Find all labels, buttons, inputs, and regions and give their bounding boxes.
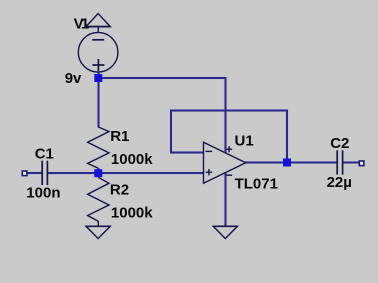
svg-text:C2: C2 bbox=[330, 135, 349, 152]
svg-text:C1: C1 bbox=[35, 145, 54, 162]
svg-text:U1: U1 bbox=[235, 132, 254, 149]
svg-text:9v: 9v bbox=[65, 70, 82, 87]
svg-text:V1: V1 bbox=[74, 15, 90, 32]
svg-text:1000k: 1000k bbox=[111, 151, 153, 168]
svg-text:R2: R2 bbox=[110, 181, 129, 198]
svg-text:R1: R1 bbox=[110, 128, 129, 145]
svg-text:TL071: TL071 bbox=[235, 176, 278, 193]
svg-text:22µ: 22µ bbox=[327, 174, 352, 191]
svg-text:100n: 100n bbox=[26, 185, 60, 202]
svg-text:1000k: 1000k bbox=[111, 205, 153, 222]
